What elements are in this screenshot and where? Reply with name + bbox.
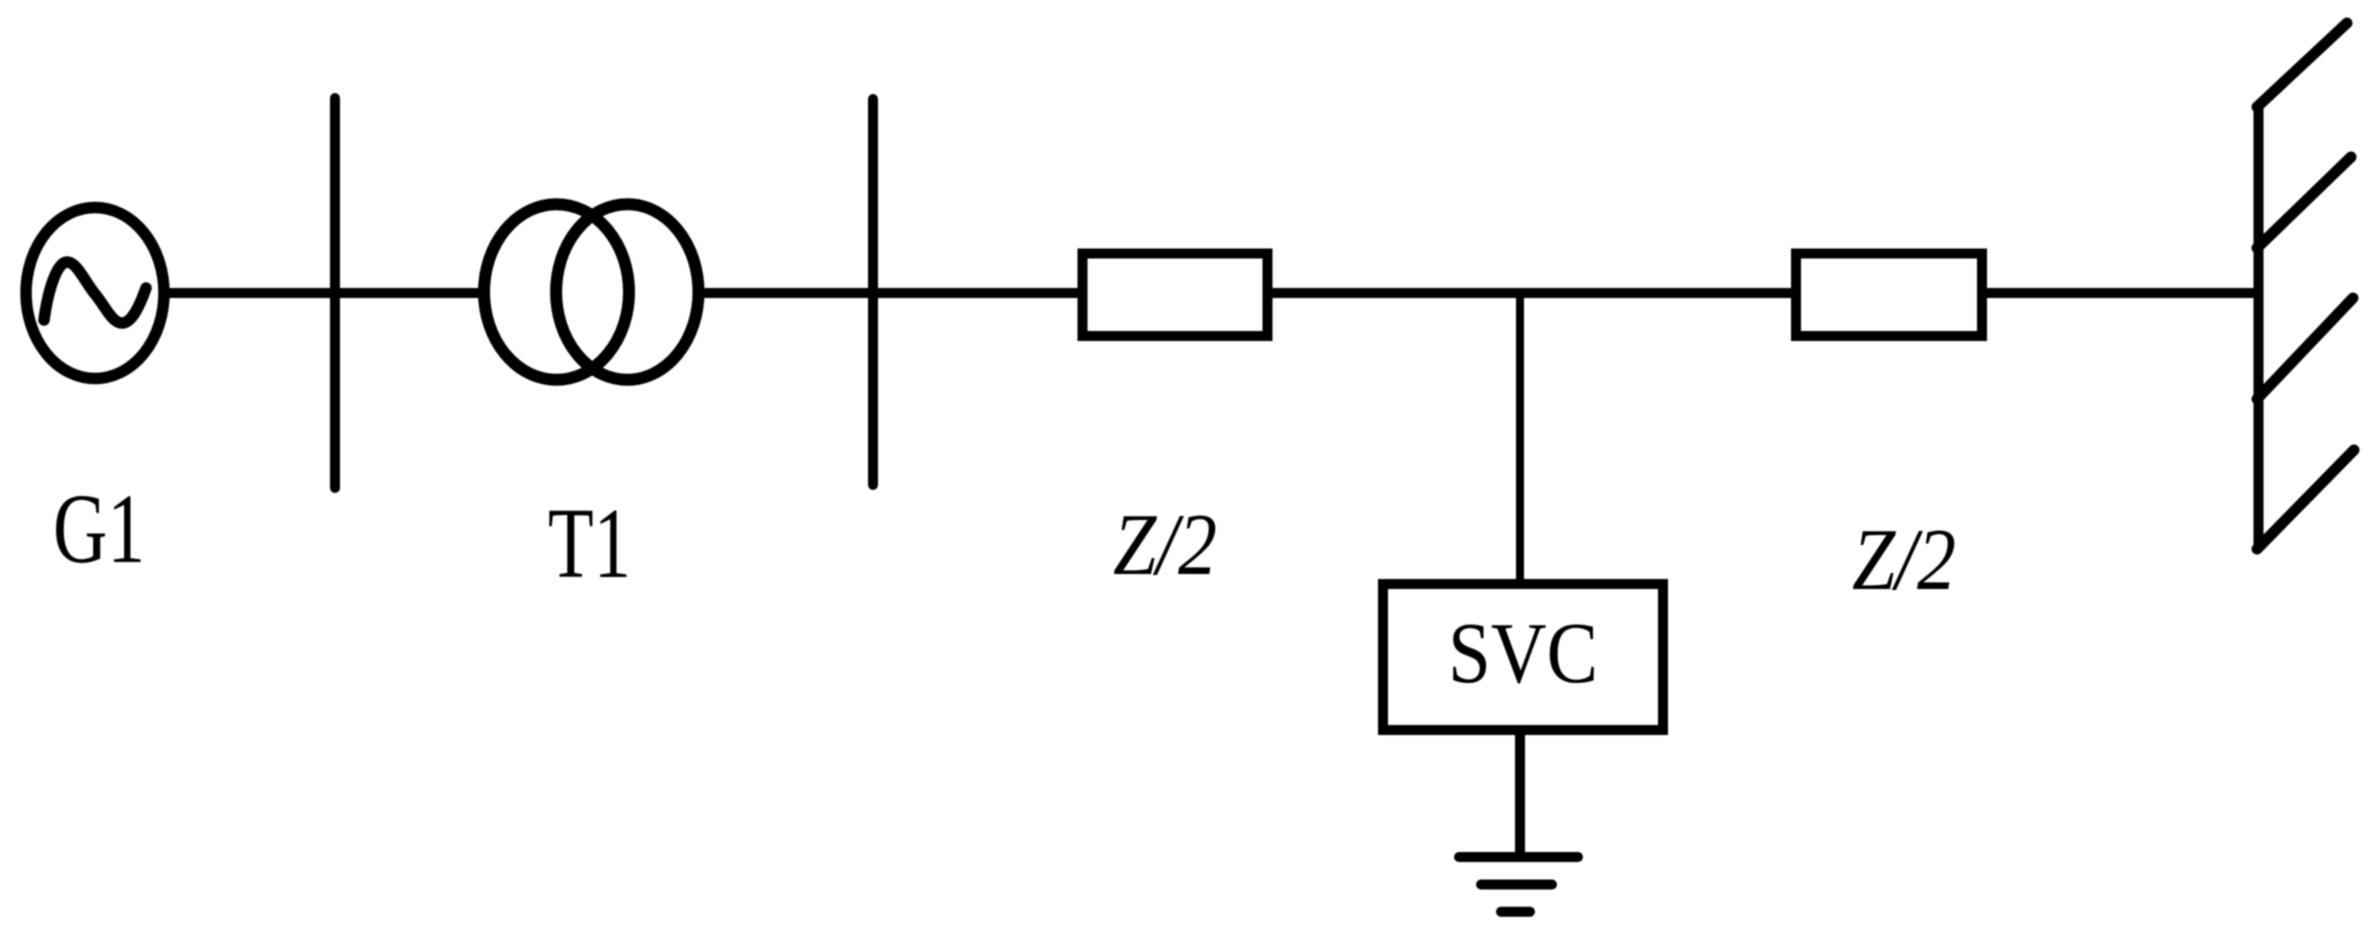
label G1: [53, 473, 145, 584]
label Z/2 (right): [1852, 512, 1956, 609]
svg-text:SVC: SVC: [1448, 606, 1598, 702]
transformer T1: two overlapping circles: [484, 204, 629, 380]
svg-text:Z/2: Z/2: [1113, 497, 1217, 594]
ground bar 2: [1481, 880, 1552, 890]
generator G1: AC source circle: [26, 208, 164, 379]
svg-text:T1: T1: [548, 488, 631, 600]
bus bar A: [330, 98, 340, 488]
infinite bus hatch 3: [2257, 298, 2353, 399]
label SVC: [1448, 606, 1598, 702]
wire: main horizontal line from G1 to infinite bus: [158, 288, 2259, 298]
wire: SVC to ground: [1515, 730, 1525, 857]
infinite bus: vertical line: [2254, 108, 2264, 548]
svg-text:Z/2: Z/2: [1852, 512, 1956, 609]
ground bar 1: [1459, 852, 1578, 862]
ground bar 3: [1501, 907, 1530, 917]
resistor Z/2 box 2: [1796, 254, 1982, 337]
bus bar B: [868, 99, 878, 485]
label T1: [548, 488, 631, 600]
resistor Z/2 box 1: [1083, 254, 1268, 337]
infinite bus hatch 1: [2257, 23, 2347, 107]
label Z/2 (left): [1113, 497, 1217, 594]
node: T junction wire down to SVC: [1516, 293, 1524, 580]
SVC box: [1383, 584, 1663, 730]
svg-text:G1: G1: [53, 473, 145, 584]
sine symbol inside G1: [44, 262, 146, 323]
infinite bus hatch 2: [2257, 157, 2351, 248]
infinite bus hatch 4: [2257, 450, 2354, 549]
